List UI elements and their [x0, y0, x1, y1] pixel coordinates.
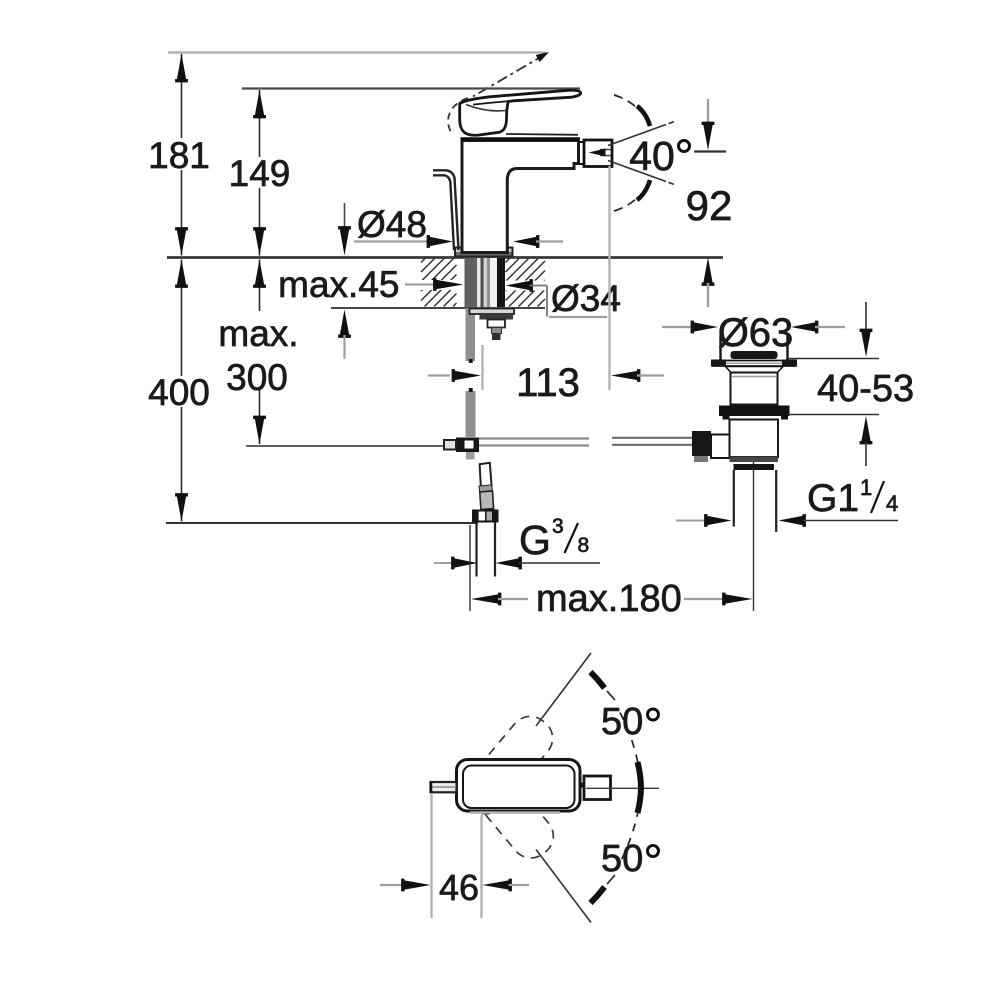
- dim 181 line+arrows: [181, 54, 183, 138]
- svg-text:3: 3: [552, 515, 564, 538]
- phantom raised lever line: [473, 55, 545, 97]
- svg-text:50: 50: [601, 838, 643, 880]
- nut block: [488, 320, 506, 328]
- dim d48 right arrow: [513, 235, 539, 248]
- popup rod left: [479, 437, 589, 439]
- dim d48 left arrow: [427, 235, 453, 248]
- drain upper body: [731, 373, 778, 405]
- topview body inner: [463, 766, 575, 809]
- svg-text:300: 300: [226, 357, 288, 398]
- svg-text:40-53: 40-53: [817, 368, 914, 410]
- dim max300 line+arrows: [259, 260, 261, 312]
- dim 113 left arrow: [428, 374, 450, 376]
- drain neck: [726, 367, 784, 373]
- supply pipe lower: [466, 391, 476, 437]
- dim 400 line+arrows: [181, 260, 183, 377]
- svg-text:113: 113: [516, 361, 580, 405]
- dim d34 right arrow: [506, 279, 533, 292]
- swivel arc dash upper: [620, 713, 639, 767]
- arc arrow upper: [637, 106, 650, 126]
- arc arrow lower: [637, 180, 650, 200]
- dim 92 upper: [707, 99, 709, 123]
- supply pipe upper: [466, 308, 476, 361]
- rod fitting: [456, 438, 479, 453]
- phantom lever nose arc: [448, 98, 468, 134]
- deck bottom line: [331, 307, 545, 309]
- ext line 46 left: [430, 793, 432, 918]
- drain side port: [711, 435, 730, 459]
- dim max180 right arrow: [684, 598, 725, 600]
- ref line 92 top: [694, 150, 726, 152]
- svg-text:Ø63: Ø63: [718, 311, 794, 355]
- g38 band: [479, 485, 492, 492]
- dim g114 right arrow: [779, 514, 806, 527]
- dim d48 underline: [354, 240, 431, 242]
- dim g38 left arrow: [434, 562, 455, 564]
- dim d63 left arrow: [662, 326, 695, 328]
- dim 113 right arrow: [611, 369, 640, 382]
- dim max45 top arrow: [344, 203, 346, 229]
- drain collar: [719, 406, 790, 417]
- angle line lower: [608, 161, 666, 182]
- swivel bracket lower: [638, 788, 642, 814]
- drain lower body: [730, 420, 779, 458]
- svg-text:50: 50: [601, 701, 643, 743]
- supply hose: [433, 170, 459, 250]
- drain bottom band1: [730, 457, 779, 463]
- dim max45 leader arrow: [405, 283, 436, 285]
- g38 pipe: [475, 523, 477, 577]
- rod knob: [692, 431, 711, 456]
- swivel line upper: [536, 653, 591, 726]
- dim d63 right arrow: [791, 321, 818, 334]
- lever underside line: [473, 101, 513, 105]
- ref line 400 bottom: [166, 522, 478, 524]
- ref line 4053 bottom: [788, 414, 879, 416]
- ext line faucet center: [481, 345, 483, 390]
- worktop deck line: [167, 256, 723, 259]
- drain tailpipe: [733, 470, 735, 527]
- svg-text:40: 40: [629, 133, 675, 179]
- dim 46 right arrow: [483, 879, 512, 892]
- g38 nut: [472, 510, 499, 523]
- flow arrow: [600, 149, 611, 151]
- nut tip: [492, 334, 501, 341]
- dim g114 left arrow: [676, 520, 707, 522]
- topview centerline: [586, 787, 659, 789]
- swivel bracket upper: [638, 762, 642, 788]
- ref line max300 bottom: [246, 445, 456, 447]
- svg-text:4: 4: [886, 491, 898, 516]
- lever dome arc: [466, 105, 506, 111]
- angle line upper: [608, 125, 666, 146]
- dim 92 lower: [702, 258, 715, 286]
- halo left: [398, 280, 464, 290]
- svg-text:G: G: [519, 517, 551, 563]
- ghost handle lower: [456, 752, 561, 866]
- halo right: [505, 281, 553, 291]
- ref line top (181 upper reference): [168, 51, 546, 54]
- svg-text:max.180: max.180: [536, 578, 682, 620]
- shank nut: [480, 314, 514, 320]
- g38 connector top: [480, 463, 492, 488]
- svg-text:181: 181: [148, 135, 210, 176]
- ref line 4053 top: [788, 358, 879, 360]
- shank washer: [470, 309, 515, 315]
- swivel arc arrow upper: [591, 672, 605, 688]
- swivel line lower: [536, 850, 591, 923]
- svg-text:8: 8: [578, 534, 590, 557]
- dim d34 underline: [549, 316, 607, 318]
- drain flange: [712, 360, 796, 362]
- rod stub left: [444, 440, 456, 450]
- deck hatch right: [506, 259, 510, 263]
- g38 lower: [480, 491, 494, 510]
- svg-text:46: 46: [439, 867, 479, 908]
- ext line max180 right: [753, 449, 755, 611]
- ext line 46 right: [480, 815, 482, 918]
- svg-text:92: 92: [686, 182, 733, 229]
- ref line 149 (lever top level): [242, 87, 580, 89]
- faucet body: [462, 141, 579, 253]
- body cap seam: [506, 133, 578, 136]
- nut step: [492, 328, 502, 334]
- threaded shank: [465, 258, 478, 307]
- swivel arc arrow lower: [591, 887, 605, 903]
- drain cup bar: [731, 351, 778, 359]
- drain bottom band2: [734, 464, 775, 470]
- topview body outer: [457, 760, 581, 812]
- arc dash upper: [614, 95, 639, 110]
- drain cup: [722, 336, 787, 361]
- svg-text:400: 400: [148, 372, 210, 413]
- dim 46 left arrow: [380, 884, 402, 886]
- swivel arc dash lower: [620, 809, 639, 863]
- deck hatch left: [421, 259, 425, 263]
- arc dash lower: [614, 196, 639, 211]
- svg-text:Ø48: Ø48: [357, 204, 427, 245]
- fitting tail: [466, 452, 475, 460]
- aerator outlet: [584, 140, 612, 167]
- svg-text:max.45: max.45: [278, 264, 399, 305]
- dim max45 bottom arrow: [338, 310, 351, 338]
- svg-text:max.: max.: [218, 313, 298, 354]
- lever: [460, 90, 581, 135]
- popup rod right: [612, 437, 692, 439]
- topview aerator: [581, 783, 585, 788]
- dim 149 line+arrows: [259, 90, 261, 157]
- ghost handle upper: [455, 708, 560, 822]
- topview stub: [431, 782, 457, 792]
- topview body shadow: [470, 811, 560, 814]
- dim g38 right arrow: [496, 557, 522, 570]
- svg-text:149: 149: [229, 153, 291, 194]
- svg-text:1: 1: [860, 475, 872, 500]
- ext line spout tip: [608, 166, 610, 390]
- dim max180 left arrow: [471, 593, 501, 606]
- svg-text:G1: G1: [807, 477, 859, 520]
- ext line max180 left: [469, 525, 471, 611]
- dim 4053 arrows: [865, 302, 867, 333]
- base plate: [455, 248, 513, 257]
